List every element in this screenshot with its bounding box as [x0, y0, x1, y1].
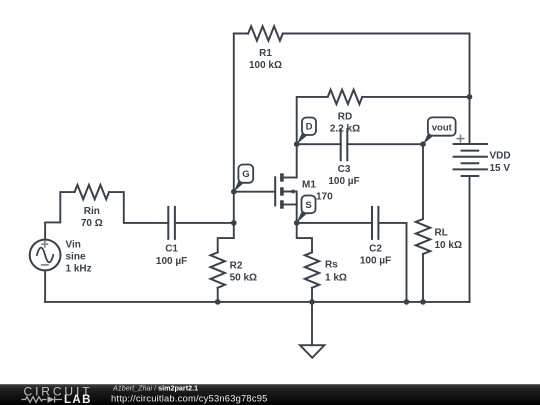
svg-text:C2: C2 — [369, 244, 382, 255]
svg-text:R2: R2 — [230, 261, 243, 272]
resistor Rs — [305, 252, 319, 287]
wire node G down to C1 row junction — [233, 192, 235, 223]
svg-text:2.2 kΩ: 2.2 kΩ — [330, 124, 360, 135]
wire RD right lead to supply junction — [363, 96, 470, 98]
wire node vout down to RL — [422, 144, 424, 219]
svg-text:1 kHz: 1 kHz — [66, 264, 92, 275]
label M1 — [302, 180, 316, 191]
svg-text:100 µF: 100 µF — [328, 176, 359, 187]
svg-text:10 kΩ: 10 kΩ — [435, 240, 462, 251]
wire Rin right lead down to C1 left plate — [109, 192, 168, 223]
resistor RD — [328, 90, 362, 104]
svg-text:100 µF: 100 µF — [156, 256, 187, 267]
node flag D — [297, 118, 316, 145]
supply junction RD/VDD — [467, 94, 473, 100]
node D junction — [294, 141, 300, 147]
wire M1 source to node S — [296, 205, 298, 223]
wire node D down to M1 drain — [296, 144, 298, 177]
svg-text:D: D — [306, 122, 313, 133]
wire C3 right plate to node vout — [347, 143, 423, 145]
label Rin — [81, 206, 103, 229]
svg-text:R1: R1 — [259, 48, 272, 59]
junction R2-ground rail — [215, 299, 221, 305]
wire left vertical R1 to node G — [233, 34, 235, 192]
label C2 — [360, 244, 391, 267]
wire Vin - down to bottom rail — [44, 270, 46, 302]
wire R2 bottom lead to rail — [217, 288, 219, 302]
resistor RL — [416, 219, 430, 254]
wire C1 right plate to G column junction — [175, 222, 234, 224]
label R2 — [230, 261, 257, 284]
transistor M1 gate line — [274, 177, 276, 205]
node G junction — [231, 189, 237, 195]
wire battery - down to rail — [469, 176, 471, 302]
battery VDD plates — [454, 144, 487, 176]
transistor M1 body arrow — [288, 189, 294, 194]
node flag G — [234, 165, 253, 192]
wire node G to M1 gate — [234, 191, 275, 193]
svg-text:LAB: LAB — [64, 394, 92, 405]
node S junction — [294, 220, 300, 226]
label C1 — [156, 243, 187, 267]
capacitor C1 — [168, 207, 175, 239]
ground — [300, 345, 324, 358]
node at C1/R2 junction — [231, 220, 237, 226]
svg-text:A1bert_Zhai / sim2part2.1: A1bert_Zhai / sim2part2.1 — [112, 383, 198, 392]
wire C2 right plate to corner down to rail — [378, 223, 406, 302]
transistor M1 drain/source arms — [284, 178, 297, 205]
resistor R1 — [248, 26, 283, 40]
svg-text:70 Ω: 70 Ω — [81, 218, 103, 229]
svg-text:http://circuitlab.com/cy53n63g: http://circuitlab.com/cy53n63g78c95 — [111, 393, 268, 404]
label RD — [330, 112, 360, 135]
svg-text:vout: vout — [432, 122, 453, 133]
wire ground stem — [311, 302, 313, 345]
wire supply vertical from top rail to battery + — [469, 34, 471, 145]
node flag vout — [423, 117, 456, 144]
battery + mark — [457, 135, 465, 143]
node vout junction — [420, 141, 426, 147]
voltage source Vin circle — [30, 240, 61, 271]
label C3 — [328, 164, 359, 187]
voltage source Vin sine — [37, 248, 53, 263]
svg-text:15 V: 15 V — [490, 163, 511, 174]
svg-text:VDD: VDD — [490, 151, 511, 162]
junction RL-ground rail — [420, 299, 426, 305]
wire RL bottom lead to rail — [422, 254, 424, 302]
label R1 — [249, 48, 282, 71]
svg-text:C3: C3 — [338, 164, 351, 175]
wire junction down jog left into R2 — [218, 223, 234, 252]
svg-text:170: 170 — [316, 192, 333, 203]
Vin polarity marks — [41, 241, 49, 265]
svg-text:Rs: Rs — [325, 260, 338, 271]
svg-text:Rin: Rin — [84, 206, 100, 217]
resistor Rin — [75, 185, 110, 199]
label RL — [435, 228, 462, 252]
wire RD left lead down to node D — [297, 97, 328, 144]
wire node S to C2 left plate — [297, 222, 372, 224]
wire Rin left lead jog down to Vin + — [45, 192, 74, 240]
resistor R2 — [211, 252, 225, 287]
junction C2-ground rail — [404, 299, 410, 305]
wire bottom rail — [45, 301, 469, 303]
svg-text:RL: RL — [435, 228, 448, 239]
wire top rail left of R1 — [234, 33, 248, 35]
wire node S jog right into Rs — [297, 223, 312, 252]
label Vin — [66, 240, 92, 275]
node flag S — [297, 196, 316, 223]
label Rs — [325, 260, 347, 284]
label VDD — [490, 151, 511, 174]
capacitor C3 — [341, 129, 348, 160]
svg-text:Vin: Vin — [66, 240, 81, 251]
wire top rail R1 to supply column — [283, 33, 470, 35]
svg-text:sine: sine — [66, 252, 86, 263]
transistor M1 channel bars — [280, 173, 284, 181]
svg-text:RD: RD — [338, 112, 352, 123]
svg-text:G: G — [242, 169, 249, 180]
svg-text:C1: C1 — [165, 243, 178, 254]
label M1 model 170 — [316, 192, 333, 203]
svg-text:S: S — [305, 200, 311, 211]
wire Rs bottom lead to rail — [311, 288, 313, 302]
svg-text:100 kΩ: 100 kΩ — [249, 60, 282, 71]
svg-text:M1: M1 — [302, 180, 316, 191]
svg-text:1 kΩ: 1 kΩ — [325, 272, 347, 283]
junction Rs-ground rail — [309, 299, 315, 305]
svg-text:100 µF: 100 µF — [360, 256, 391, 267]
wire node D to C3 left plate — [297, 143, 341, 145]
capacitor C2 — [372, 207, 378, 239]
svg-text:50 kΩ: 50 kΩ — [230, 272, 257, 283]
footer logo wire-resistor-diode glyph — [22, 396, 63, 402]
